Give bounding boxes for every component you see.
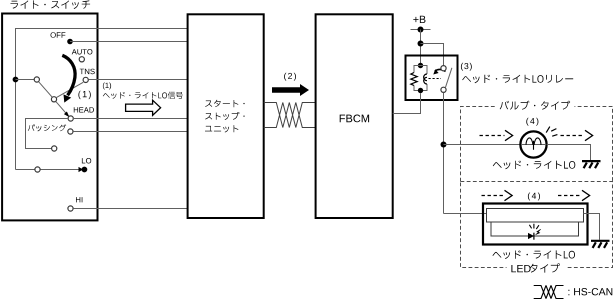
label passing (passhingu) bbox=[28, 124, 66, 131]
wire LED unit to ground bbox=[584, 214, 600, 240]
LED inner module upper bbox=[487, 209, 584, 223]
LED headlight housing box bbox=[483, 204, 588, 245]
contact HI bbox=[68, 206, 73, 211]
ground (LED) bbox=[591, 241, 610, 248]
switch arm segment 1 (pivot to mid contact) bbox=[39, 82, 52, 97]
contact: arm mid bbox=[51, 97, 56, 102]
legend label : HS-CAN bbox=[568, 288, 612, 295]
CAN flow arrow (solid) bbox=[272, 84, 309, 96]
wire relay contact output down bbox=[443, 93, 445, 214]
wire bulb to ground bbox=[547, 145, 591, 161]
contact AUTO bbox=[79, 57, 84, 62]
label HI bbox=[76, 197, 82, 202]
FBCM box bbox=[316, 14, 393, 218]
start-stop unit box bbox=[188, 14, 264, 218]
label (2) bbox=[284, 73, 296, 81]
label start-stop unit line2 bbox=[205, 112, 244, 120]
power tap +B (bar + dot) bbox=[411, 27, 431, 33]
dashed flow arrow left (bulb) bbox=[480, 130, 513, 140]
bulb lamp (4) bbox=[520, 131, 546, 157]
contact on LO wire bbox=[35, 167, 40, 172]
label: light switch title bbox=[11, 0, 91, 9]
label HEAD bbox=[74, 107, 94, 112]
label headlight LO signal bbox=[103, 92, 183, 99]
LED D1 (diode on lower module edge) bbox=[528, 233, 534, 240]
wire +B down to relay coil bbox=[420, 30, 422, 66]
wire HI output bbox=[73, 208, 187, 210]
contact: passing lower throw bbox=[52, 146, 57, 151]
label headlight LO (bulb) bbox=[493, 161, 576, 170]
legend twisted-pair symbol wire A bbox=[534, 286, 564, 299]
contact HEAD bbox=[68, 116, 73, 121]
terminal LO (arrow + dot) bbox=[79, 167, 88, 173]
label OFF bbox=[51, 32, 66, 38]
relay contact blade bbox=[446, 68, 452, 88]
label headlight LO (LED) bbox=[493, 250, 576, 259]
label headlight LO relay bbox=[462, 75, 573, 84]
wire: passing loop (left of HEAD, down, right) bbox=[26, 119, 68, 149]
label (3) bbox=[461, 63, 472, 71]
rotation arc arrow (thick) bbox=[62, 55, 75, 102]
wire: parallel branch frame bbox=[414, 66, 427, 91]
label (1) near arc bbox=[78, 91, 90, 99]
wire HEAD output bbox=[73, 118, 188, 120]
contact: wiper pivot bbox=[34, 77, 39, 82]
wire TNS output bbox=[88, 79, 187, 81]
LED-type dashed box bbox=[461, 182, 613, 268]
wire to bulb bbox=[444, 144, 521, 146]
relay contact fixed (top) bbox=[441, 66, 446, 71]
wire relay output to LED unit bbox=[444, 213, 487, 215]
junction coil bottom bbox=[418, 88, 423, 93]
label start-stop unit line1 bbox=[205, 100, 244, 107]
mechanical link (dashed) bbox=[429, 78, 442, 80]
label start-stop unit line3 bbox=[205, 125, 238, 132]
wire: internal bus, top run + left vertical bbox=[16, 29, 188, 170]
twisted pair HS-CAN wire B bbox=[264, 103, 316, 128]
label AUTO bbox=[72, 49, 93, 54]
label bulb type on border bbox=[496, 100, 575, 111]
label TNS bbox=[80, 69, 95, 75]
junction +B branch bbox=[418, 41, 424, 47]
label (1) signal bbox=[103, 83, 111, 90]
relay contact moving (bottom) bbox=[441, 87, 446, 92]
LED emission rays bbox=[529, 224, 540, 235]
wire: TNS throw position (thin link) bbox=[57, 82, 84, 97]
LED inner module lower bbox=[491, 222, 579, 236]
label FBCM bbox=[340, 115, 369, 123]
label (4) LED bbox=[528, 193, 540, 201]
bulb shine rays bbox=[546, 127, 557, 137]
label (4) bulb bbox=[526, 118, 538, 126]
signal flow arrow (outline) bbox=[126, 100, 161, 115]
label +B bbox=[413, 16, 425, 23]
contact passing output bbox=[68, 129, 73, 134]
bulb-type dashed box (shares bottom edge with LED box) bbox=[461, 107, 613, 182]
label LED type on border bbox=[507, 263, 568, 274]
twisted pair HS-CAN wire A bbox=[264, 103, 316, 128]
light switch SW1 box bbox=[2, 14, 97, 221]
dashed flow arrow right (bulb) bbox=[561, 130, 593, 140]
junction: bus to wiper bbox=[13, 77, 19, 83]
relay actuation arrow (curved) bbox=[433, 69, 445, 74]
dashed flow arrow left (LED) bbox=[482, 190, 513, 200]
resistor (relay parallel) bbox=[411, 73, 417, 86]
junction to bulb branch bbox=[441, 142, 447, 148]
wire OFF output bbox=[70, 41, 188, 43]
dashed flow arrow right (LED) bbox=[558, 190, 590, 200]
label LO bbox=[82, 158, 91, 164]
switch arm segment 2 with arrowhead to HEAD bbox=[56, 102, 70, 118]
wire branch to relay contact bbox=[421, 44, 444, 69]
relay coil L1 bbox=[424, 74, 427, 84]
wire passing output bbox=[73, 131, 187, 133]
contact OFF (closed dot) bbox=[67, 39, 73, 45]
wire: bus to wiper pivot bbox=[16, 79, 35, 81]
junction coil top bbox=[418, 63, 423, 68]
relay K1 box bbox=[406, 56, 458, 101]
ground (bulb) bbox=[582, 161, 601, 168]
wire LO with inline contact bbox=[16, 169, 80, 171]
legend twisted-pair symbol wire B bbox=[534, 286, 564, 299]
wire relay coil to FBCM bbox=[393, 93, 421, 113]
contact TNS bbox=[83, 77, 88, 82]
